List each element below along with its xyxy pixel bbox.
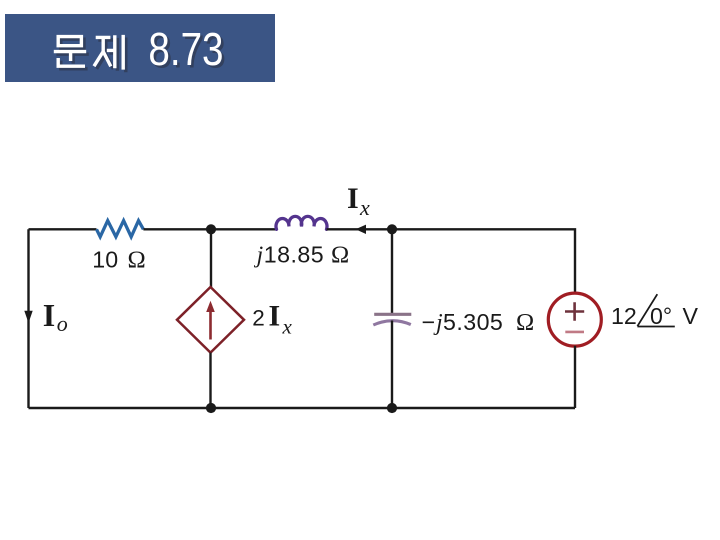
- title text shadow: [56, 38, 125, 73]
- svg-text:Ω: Ω: [516, 309, 534, 336]
- wire capacitor to bottom wire: [391, 321, 393, 409]
- wire diamond bottom to bottom wire: [209, 353, 211, 408]
- wire top-left segment: [29, 228, 97, 230]
- left wire with Io: [27, 229, 29, 408]
- node bottom B: [387, 403, 397, 413]
- svg-text:10: 10: [92, 247, 118, 273]
- wire node B to capacitor: [391, 229, 393, 313]
- svg-text:2: 2: [252, 306, 265, 331]
- svg-text:12: 12: [611, 303, 637, 329]
- voltage source V 12V: [548, 293, 601, 346]
- title hangul 문제: [54, 35, 123, 70]
- svg-text:Ω: Ω: [331, 241, 349, 268]
- wire node A to diamond top: [210, 229, 212, 287]
- node B: [387, 224, 397, 234]
- arrow Io: [24, 311, 32, 323]
- current arrow Ix: [356, 225, 367, 234]
- bottom wire: [29, 407, 576, 409]
- label 10 ohm: [92, 247, 145, 274]
- wire resistor to node A: [143, 228, 276, 230]
- svg-text:V: V: [683, 303, 699, 329]
- wire inductor to node B: [327, 228, 393, 230]
- label 12 angle 0 V: [611, 294, 699, 329]
- svg-text:o: o: [57, 311, 68, 336]
- svg-text:−: −: [422, 309, 436, 335]
- svg-text:0°: 0°: [650, 303, 672, 329]
- wire node B to source top: [392, 229, 575, 292]
- node A: [206, 224, 216, 234]
- svg-text:j: j: [254, 242, 264, 268]
- svg-text:18.85: 18.85: [264, 241, 324, 267]
- svg-text:Ω: Ω: [128, 247, 146, 274]
- label j18.85 ohm: [254, 241, 350, 268]
- label -j5.305 ohm: [422, 309, 535, 336]
- label Ix top: [347, 182, 370, 220]
- svg-text:I: I: [347, 182, 359, 215]
- dependent current source 2Ix diamond: [177, 287, 244, 353]
- svg-text:I: I: [43, 297, 55, 333]
- inductor L j18.85ohm: [276, 216, 327, 229]
- capacitor C -j5.305ohm: [373, 314, 411, 325]
- label Io: [43, 297, 68, 336]
- svg-text:x: x: [359, 195, 370, 220]
- wire source bottom to bottom-right corner: [574, 346, 576, 408]
- svg-text:5.305: 5.305: [443, 309, 503, 335]
- label 2Ix: [252, 300, 292, 339]
- resistor R 10ohm: [97, 221, 144, 237]
- node bottom A: [206, 403, 216, 413]
- svg-text:I: I: [269, 300, 281, 333]
- svg-text:x: x: [282, 315, 293, 339]
- title number 8.73: [148, 24, 226, 79]
- title bar: [5, 14, 275, 82]
- svg-text:8.73: 8.73: [148, 24, 223, 76]
